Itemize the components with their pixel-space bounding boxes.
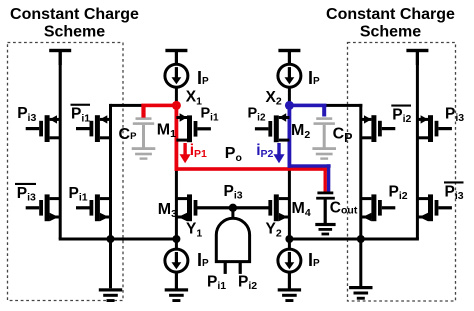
switch PMOS Pi1-bar (left box top-right) bbox=[76, 115, 111, 142]
wire: Y2 rail to right box bbox=[289, 238, 419, 241]
ground (right box) bbox=[349, 239, 372, 300]
red wire: X1 down to Po bbox=[175, 104, 179, 171]
VDD supply bar (right box) bbox=[406, 49, 428, 65]
left constant charge scheme dashed box bbox=[8, 43, 124, 301]
transistor M4 (NMOS) bbox=[268, 194, 289, 221]
red wire: down into Cout bbox=[324, 167, 327, 192]
node X2 (blue junction dot) bbox=[285, 101, 294, 110]
switch PMOS Pi2-bar (right box top-left) bbox=[361, 115, 396, 142]
VDD supply bar (left branch) bbox=[165, 49, 187, 65]
node X1 (red junction dot) bbox=[172, 101, 181, 110]
wire: X2 feed to right box bbox=[326, 104, 363, 107]
wire: Pi3 gate line M3-M4 bbox=[197, 206, 268, 209]
wire: Y1 rail to left box bbox=[59, 238, 177, 241]
AND gate U1 (output Pi3) bbox=[216, 208, 249, 274]
switch NMOS Pi2 (right box bottom-left) bbox=[361, 194, 396, 221]
node Y2 (junction dot) bbox=[285, 235, 293, 243]
capacitor CP (right, gray) with gray ground bbox=[312, 117, 336, 159]
wire: right branch spine X2-M2-Po-M4-Y2 bbox=[288, 87, 291, 289]
blue wire: horizontal to Cout bbox=[288, 164, 331, 167]
junction dot right box rail bbox=[357, 235, 365, 243]
svg-text:Constant Charge: Constant Charge bbox=[10, 6, 139, 23]
red wire: Po horizontal to Cout bbox=[175, 167, 327, 171]
node Pi3 gate junction dot bbox=[229, 204, 237, 212]
current source IP (top right) bbox=[278, 64, 301, 87]
blue wire: X2 to CP bbox=[289, 104, 326, 108]
capacitor CP (left, gray) with gray ground bbox=[132, 117, 156, 159]
red wire: X1 to CP bbox=[141, 104, 176, 108]
ground (bottom right branch) bbox=[278, 272, 301, 303]
switch PMOS Pi3 (left box top-left) bbox=[26, 115, 60, 142]
red wire: stub into left CP bbox=[141, 105, 145, 117]
switch NMOS Pi3-bar (right box bottom-right) bbox=[417, 194, 452, 221]
blue wire: stub into right CP bbox=[322, 105, 326, 116]
blue wire: X2 down to Po bbox=[288, 104, 292, 168]
current source IP (top left) bbox=[165, 64, 188, 87]
VDD supply bar (right branch) bbox=[278, 49, 300, 65]
wire: left box inner column bbox=[109, 104, 112, 239]
right constant charge scheme dashed box bbox=[348, 43, 456, 302]
wire: left branch spine X1-M1-Po-M3-Y1 bbox=[175, 87, 178, 289]
blue current arrow iP2 bbox=[273, 143, 284, 163]
svg-text:Scheme: Scheme bbox=[360, 24, 421, 41]
blue wire: down into Cout bbox=[327, 164, 330, 192]
switch NMOS Pi3-bar (left box bottom-left) bbox=[26, 194, 60, 221]
title right: Constant Charge Scheme bbox=[326, 6, 455, 40]
wire: right box inner column bbox=[359, 104, 362, 239]
capacitor Cout with ground bbox=[315, 192, 335, 236]
wire: X1 feed to left box bbox=[111, 104, 143, 107]
wire: right box outer column bbox=[416, 52, 419, 239]
switch NMOS Pi1 (left box bottom-right) bbox=[76, 194, 111, 221]
junction dot left box rail bbox=[107, 235, 115, 243]
transistor M1 (PMOS) bbox=[176, 113, 211, 142]
wire: left box outer column bbox=[59, 52, 62, 239]
current source IP (bottom left) bbox=[165, 249, 188, 272]
svg-text:Scheme: Scheme bbox=[44, 24, 105, 41]
node Y1 (junction dot) bbox=[172, 235, 180, 243]
current source IP (bottom right) bbox=[278, 249, 301, 272]
svg-text:Constant Charge: Constant Charge bbox=[326, 6, 455, 23]
ground (bottom left branch) bbox=[165, 272, 188, 303]
switch PMOS Pi3 (right box top-right) bbox=[417, 115, 452, 142]
transistor M3 (NMOS) bbox=[176, 194, 197, 221]
red current arrow iP1 bbox=[180, 143, 191, 163]
VDD supply bar (left box) bbox=[49, 49, 71, 65]
transistor M2 (PMOS) bbox=[255, 113, 290, 142]
title left: Constant Charge Scheme bbox=[10, 6, 139, 40]
ground (left box) bbox=[99, 239, 122, 302]
